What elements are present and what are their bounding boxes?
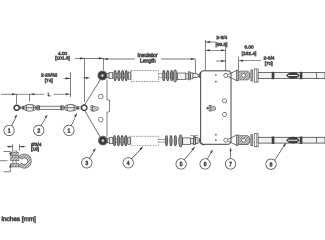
callout 4 <box>123 146 143 168</box>
dimension 2-3/4 [69.5] top right <box>205 35 227 71</box>
bottom clevis pin hole <box>224 138 228 142</box>
turnbuckle body 1 <box>24 105 37 112</box>
svg-text:6.00: 6.00 <box>244 45 254 51</box>
bolt at yoke <box>91 105 98 111</box>
dimension 4.00 [101.6] <box>55 51 103 102</box>
rod between turnbuckles <box>40 106 61 109</box>
svg-text:2: 2 <box>37 129 40 135</box>
bolt on right plate <box>206 105 215 111</box>
svg-text:8: 8 <box>270 162 273 168</box>
bottom insulator cylinder body <box>183 138 194 145</box>
dimension 6.00 [152.4] <box>216 45 256 62</box>
callout 1b <box>64 113 78 136</box>
svg-text:[101.6]: [101.6] <box>55 56 70 62</box>
dimension 2-3/4 [70] <box>239 56 275 70</box>
yoke pin eye <box>77 106 79 109</box>
svg-text:[70]: [70] <box>265 61 273 67</box>
top right clevis <box>228 70 238 81</box>
shackle detail <box>0 142 42 172</box>
dimension 2-29/32 [74] <box>41 73 90 98</box>
pin <box>61 105 62 110</box>
svg-text:[74]: [74] <box>45 78 53 84</box>
callout 6 <box>200 150 213 170</box>
dimension Insulator Length <box>103 53 195 73</box>
svg-text:[152.4]: [152.4] <box>242 51 257 57</box>
svg-text:1: 1 <box>68 129 71 135</box>
svg-text:7: 7 <box>229 162 232 168</box>
callout 7 <box>225 147 235 169</box>
top insulator right sheds <box>159 70 175 80</box>
yoke plate <box>85 79 110 138</box>
svg-text:6: 6 <box>204 162 207 168</box>
bottom insulator left sheds <box>113 136 130 146</box>
bottom anchor rod <box>258 137 325 144</box>
top insulator cylinder body <box>177 73 188 80</box>
bottom insulator bell cap <box>179 135 183 147</box>
svg-text:3: 3 <box>85 161 88 167</box>
svg-text:[19]: [19] <box>31 146 39 152</box>
callout 3 <box>82 148 96 168</box>
top string right ball-eye <box>199 71 208 80</box>
bottom string cotter bracket <box>190 136 198 140</box>
bottom right socket barrel <box>238 134 258 147</box>
svg-text:1: 1 <box>8 129 11 135</box>
top anchor rod <box>258 72 325 79</box>
turnbuckle body 2 <box>64 105 77 112</box>
bottom insulator right sheds <box>165 136 176 146</box>
pin <box>37 105 38 110</box>
callout 5 <box>176 147 195 169</box>
svg-text:5: 5 <box>180 162 183 168</box>
bottom string pin collars <box>194 137 199 145</box>
right yoke plate <box>201 71 231 145</box>
svg-text:2-3/4: 2-3/4 <box>264 56 275 62</box>
bottom string left ball-eye <box>99 136 113 145</box>
svg-text:L: L <box>48 92 51 98</box>
turnbuckle left eye <box>14 105 23 110</box>
bottom insulator dashed break box <box>131 136 158 145</box>
top string tongue <box>193 74 199 78</box>
svg-text:4: 4 <box>127 161 130 167</box>
top clevis pin hole <box>224 74 228 78</box>
bottom string right ball-eye <box>199 136 208 145</box>
svg-text:Length: Length <box>140 59 156 65</box>
top right socket barrel <box>238 69 258 82</box>
top string left ball-eye <box>98 71 113 80</box>
callout 8 <box>266 143 287 170</box>
top insulator dashed break box <box>131 71 158 82</box>
svg-text:2-29/32: 2-29/32 <box>41 73 58 79</box>
bottom right clevis <box>228 135 238 146</box>
dimension L <box>1 92 70 104</box>
top insulator left sheds <box>113 70 131 80</box>
top string pin collars <box>188 72 193 80</box>
top insulator bell cap <box>173 70 177 82</box>
bottom insulator rod stub <box>158 139 166 142</box>
svg-text:2-3/4: 2-3/4 <box>216 35 227 41</box>
callout 2 <box>34 115 48 136</box>
svg-text:inches [mm]: inches [mm] <box>2 216 37 223</box>
callout 1 <box>4 114 17 135</box>
